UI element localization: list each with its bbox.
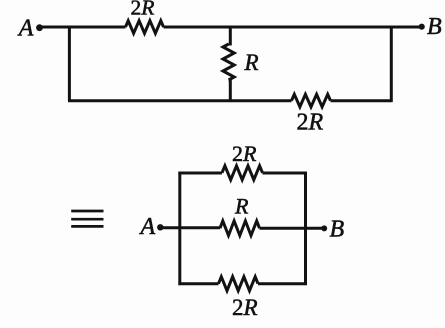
wire: middle resistor to B dot (bottom circuit)	[260, 227, 325, 230]
svg-text:B: B	[330, 217, 345, 243]
wire: top branch right lead (bottom circuit)	[263, 172, 307, 175]
resistor R (middle vertical, top circuit)	[223, 44, 234, 80]
svg-text:2R: 2R	[297, 110, 324, 136]
equivalence symbol	[71, 211, 103, 226]
wire: bottom of top circuit, left segment	[68, 99, 292, 102]
svg-text:R: R	[244, 50, 259, 75]
wire: top branch left lead (bottom circuit)	[178, 172, 222, 175]
svg-text:A: A	[17, 16, 34, 42]
terminal dot A (bottom circuit)	[157, 224, 163, 230]
wire: top resistor to B dot	[164, 26, 422, 29]
svg-text:2R: 2R	[232, 141, 257, 166]
svg-text:2R: 2R	[232, 295, 258, 320]
svg-text:2R: 2R	[131, 0, 155, 20]
wire: left vertical of bottom circuit	[178, 172, 181, 286]
svg-text:B: B	[427, 14, 442, 40]
wire: right vertical of bottom circuit	[304, 172, 307, 286]
wire: bottom right segment of top circuit	[331, 99, 392, 102]
wire: bottom branch right lead (bottom circuit)	[258, 282, 307, 285]
resistor 2R (bottom branch, top circuit)	[292, 94, 331, 107]
wire: bottom branch left lead (bottom circuit)	[178, 282, 218, 285]
svg-text:A: A	[139, 214, 156, 240]
terminal dot A (top circuit)	[36, 24, 43, 31]
wire: A dot to middle resistor (bottom circuit)	[160, 226, 220, 229]
resistor R (middle branch, bottom circuit)	[220, 221, 260, 236]
wire: left vertical of top circuit	[68, 26, 71, 101]
resistor 2R (top branch, bottom circuit)	[222, 166, 263, 180]
wire: middle vertical upper lead	[229, 26, 231, 44]
terminal dot B (top circuit)	[419, 24, 425, 30]
wire: middle vertical lower lead	[229, 80, 231, 101]
resistor 2R (top branch, top circuit)	[126, 21, 164, 34]
wire: right vertical of top circuit	[390, 26, 393, 103]
resistor 2R (bottom branch, bottom circuit)	[219, 277, 259, 291]
wire: A dot to top-left of loop	[40, 26, 126, 29]
svg-text:R: R	[234, 194, 249, 219]
terminal dot B (bottom circuit)	[321, 225, 327, 231]
